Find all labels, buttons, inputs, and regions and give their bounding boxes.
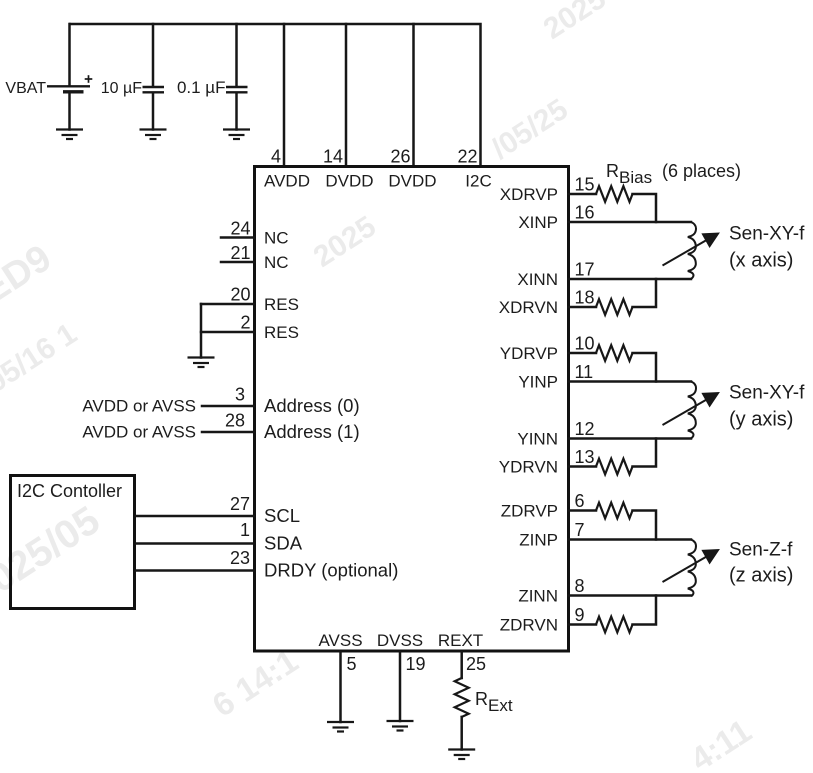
svg-text:YINN: YINN — [517, 430, 558, 449]
wire: resistor out to YINP net — [633, 353, 657, 382]
svg-text:NC: NC — [264, 253, 289, 272]
svg-text:Address (1): Address (1) — [264, 421, 360, 442]
pin 11 YINP wire to sensor — [569, 380, 692, 383]
pin 12 YINN wire to sensor — [569, 437, 692, 440]
wire: DVDD pin 26 drop — [412, 24, 415, 166]
ground (DVSS) — [387, 721, 414, 731]
svg-text:13: 13 — [575, 447, 595, 467]
wire: R_Ext to ground — [460, 717, 463, 750]
ground (battery) — [56, 130, 83, 140]
wire: DVDD pin 14 drop — [345, 24, 348, 166]
pin 6 ZDRVP wire to resistor — [569, 509, 597, 512]
svg-text:REXT: REXT — [438, 631, 483, 650]
pin 5 wire — [339, 652, 342, 722]
svg-text:DVSS: DVSS — [377, 631, 423, 650]
svg-text:ZINP: ZINP — [519, 531, 558, 550]
svg-text:23: 23 — [230, 548, 250, 568]
resistor R_Bias (Z drive N) — [596, 617, 633, 633]
pin 2 RES wire — [201, 331, 254, 334]
svg-text:AVDD or AVSS: AVDD or AVSS — [82, 423, 196, 442]
wire: 10uF cap drop — [152, 24, 155, 86]
pin 10 YDRVP wire to resistor — [569, 352, 597, 355]
svg-text:10: 10 — [575, 334, 595, 354]
svg-text:14: 14 — [323, 147, 343, 167]
resistor R_Ext — [455, 678, 469, 717]
svg-text:SDA: SDA — [264, 533, 303, 554]
wire: RES pins common to ground — [200, 304, 203, 358]
pin 19 wire — [399, 652, 402, 721]
pin 24 NC stub wire — [221, 236, 254, 239]
pin 16 XINP wire to sensor — [569, 221, 692, 224]
sensor element Sen-X squiggle — [688, 222, 696, 279]
svg-text:I2C Contoller: I2C Contoller — [17, 481, 122, 501]
svg-text:25: 25 — [466, 654, 486, 674]
wire: battery to ground — [68, 93, 71, 130]
svg-text:9: 9 — [575, 605, 585, 625]
pin 13 YDRVN wire to resistor — [569, 465, 597, 468]
ground (AVSS) — [327, 722, 354, 732]
svg-text:2: 2 — [240, 313, 250, 333]
svg-text:XDRVP: XDRVP — [500, 185, 558, 204]
svg-text:(z axis): (z axis) — [729, 565, 793, 587]
wire: resistor out to ZINP net — [633, 511, 657, 540]
svg-text:10 µF: 10 µF — [101, 80, 142, 97]
svg-text:1: 1 — [240, 520, 250, 540]
svg-text:Sen-XY-f: Sen-XY-f — [729, 382, 805, 403]
pin 1 SDA wire — [136, 542, 254, 545]
wire: resistor out up to ZINN net — [633, 596, 657, 625]
IC U1 body — [255, 167, 569, 652]
wire: C2 to ground — [235, 93, 238, 130]
svg-text:0.1 µF: 0.1 µF — [177, 78, 226, 97]
wire: top power rail from VBAT to I2C pin drop — [70, 24, 481, 166]
capacitor C1 10uF — [143, 87, 165, 92]
pin 27 SCL wire — [136, 515, 254, 518]
sensor arrow (variable) — [663, 393, 720, 426]
resistor R_Bias (X drive N) — [596, 299, 633, 315]
svg-text:RES: RES — [264, 323, 299, 342]
svg-text:Sen-XY-f: Sen-XY-f — [729, 223, 805, 244]
svg-text:19: 19 — [406, 654, 426, 674]
ground (C1) — [140, 130, 167, 140]
svg-text:RES: RES — [264, 295, 299, 314]
pin 20 RES wire — [201, 303, 254, 306]
pin 15 XDRVP wire to resistor — [569, 193, 597, 196]
resistor R_Bias (Y drive N) — [596, 459, 633, 475]
svg-text:26: 26 — [390, 147, 410, 167]
wire: resistor out to XINP net — [633, 194, 657, 222]
svg-text:3: 3 — [235, 385, 245, 405]
svg-text:(y axis): (y axis) — [729, 408, 793, 430]
wire: 0.1uF cap drop — [235, 24, 238, 86]
svg-text:8: 8 — [575, 576, 585, 596]
svg-text:VBAT: VBAT — [5, 80, 46, 97]
svg-text:21: 21 — [230, 243, 250, 263]
pin 28 Address(1) wire — [202, 431, 254, 434]
battery VBAT — [47, 75, 92, 92]
svg-text:5: 5 — [347, 654, 357, 674]
svg-text:DVDD: DVDD — [325, 172, 373, 191]
svg-text:XDRVN: XDRVN — [499, 298, 558, 317]
svg-text:YINP: YINP — [518, 373, 558, 392]
svg-text:28: 28 — [225, 411, 245, 431]
ground (C2) — [223, 130, 250, 140]
sensor arrow (variable) — [663, 550, 720, 583]
wire: VBAT drop — [68, 24, 71, 86]
pin 3 Address(0) wire — [202, 405, 254, 408]
sensor element Sen-Y squiggle — [688, 382, 696, 439]
svg-text:6: 6 — [575, 491, 585, 511]
resistor R_Bias (Y drive P) — [596, 345, 633, 361]
wire: resistor out up to YINN net — [633, 439, 657, 467]
sensor arrow (variable) — [663, 233, 720, 266]
svg-text:20: 20 — [230, 285, 250, 305]
svg-text:ZDRVP: ZDRVP — [501, 502, 558, 521]
svg-text:XINP: XINP — [518, 213, 558, 232]
svg-text:AVDD: AVDD — [264, 172, 310, 191]
wire: resistor out up to XINN net — [633, 279, 657, 307]
svg-text:NC: NC — [264, 229, 289, 248]
svg-text:YDRVN: YDRVN — [499, 458, 558, 477]
pin 23 DRDY wire — [136, 569, 254, 572]
I2C controller box — [11, 476, 135, 609]
pin 9 ZDRVN wire to resistor — [569, 623, 597, 626]
svg-text:11: 11 — [575, 362, 594, 382]
svg-text:YDRVP: YDRVP — [500, 344, 558, 363]
sensor element Sen-Z squiggle — [688, 540, 696, 597]
capacitor C2 0.1uF — [226, 87, 248, 92]
svg-text:12: 12 — [575, 419, 595, 439]
svg-text:ZINN: ZINN — [518, 587, 558, 606]
svg-text:27: 27 — [230, 494, 250, 514]
svg-text:I2C: I2C — [465, 172, 491, 191]
ground (R_Ext) — [448, 750, 475, 760]
svg-text:Sen-Z-f: Sen-Z-f — [729, 540, 793, 561]
svg-text:4: 4 — [271, 147, 281, 167]
svg-text:ZDRVN: ZDRVN — [500, 616, 558, 635]
pin 25 wire upper — [460, 652, 463, 678]
svg-text:22: 22 — [457, 147, 477, 167]
svg-text:AVDD or AVSS: AVDD or AVSS — [82, 397, 196, 416]
pin 21 NC stub wire — [221, 261, 254, 264]
pin 7 ZINP wire to sensor — [569, 538, 692, 541]
resistor R_Bias (X drive P) — [596, 186, 633, 202]
svg-text:7: 7 — [575, 520, 585, 540]
svg-text:Address (0): Address (0) — [264, 395, 360, 416]
svg-text:18: 18 — [575, 288, 595, 308]
svg-text:24: 24 — [230, 219, 250, 239]
svg-text:XINN: XINN — [517, 270, 558, 289]
svg-text:DVDD: DVDD — [388, 172, 436, 191]
svg-text:AVSS: AVSS — [318, 631, 362, 650]
svg-text:15: 15 — [575, 175, 595, 195]
wire: C1 to ground — [152, 93, 155, 130]
ground (RES) — [188, 358, 215, 368]
svg-text:16: 16 — [575, 203, 595, 223]
wire: AVDD pin 4 drop — [283, 24, 286, 166]
svg-text:DRDY (optional): DRDY (optional) — [264, 560, 398, 581]
svg-text:17: 17 — [575, 260, 595, 280]
resistor R_Bias (Z drive P) — [596, 503, 633, 519]
pin 17 XINN wire to sensor — [569, 278, 692, 281]
svg-text:SCL: SCL — [264, 505, 300, 526]
svg-text:(x axis): (x axis) — [729, 249, 793, 271]
pin 18 XDRVN wire to resistor — [569, 306, 597, 309]
pin 8 ZINN wire to sensor — [569, 594, 692, 597]
